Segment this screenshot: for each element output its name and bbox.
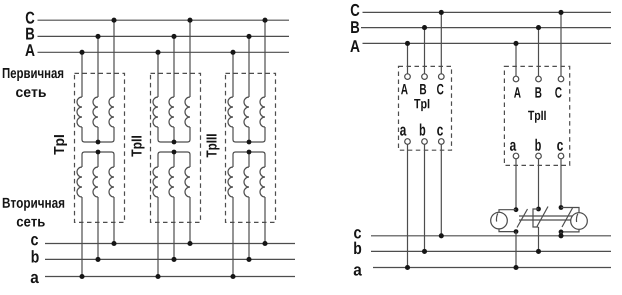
winding: TrIII primary phase C coil	[260, 97, 265, 127]
wire: TrII(box) phase C lead from bus C	[560, 12, 562, 76]
terminal: TrI(box) HV terminal C	[439, 74, 445, 80]
node: TrIII secondary star point	[247, 150, 252, 155]
node: TrII(box) tap on bus C	[558, 10, 563, 15]
wire: secondary bus a (left)	[45, 276, 295, 278]
node: TrII secondary star point	[172, 150, 177, 155]
node: TrI(box) tap on bus a	[405, 265, 410, 270]
node: switch pole c lower contact	[559, 230, 564, 235]
terminal: TrI(box) HV terminal A	[405, 74, 411, 80]
wire: primary bus C (right)	[363, 11, 612, 13]
label: TrII(box) terminal A	[514, 87, 521, 97]
node: TrI tap on bus A	[79, 50, 84, 55]
node: TrI(box) tap on bus b	[422, 249, 427, 254]
node: switch pole c upper contact	[559, 205, 564, 210]
voltmeter PV2 needle	[576, 214, 577, 222]
node: TrII tap on bus a	[155, 274, 160, 279]
node: TrI(box) tap on bus c	[439, 233, 444, 238]
wire: TrII phase B lead from bus B	[173, 36, 175, 97]
label: TrI(box) terminal c	[437, 127, 443, 136]
wire: TrII phase a lead to bus a	[157, 197, 159, 277]
wire: TrIII phase b lead to bus b	[248, 197, 250, 259]
wire: switch pole a to bus a	[515, 232, 517, 268]
terminal: TrII(box) LV terminal c	[558, 153, 564, 159]
terminal: TrII(box) HV terminal B	[536, 76, 542, 82]
wire: TrI phase B lead from bus B	[97, 36, 99, 97]
terminal: TrII(box) HV terminal C	[558, 76, 564, 82]
transformer TrIII dashed enclosure	[226, 73, 276, 222]
label: bus c (right)	[354, 229, 361, 238]
voltmeter PV1 bottom lead	[499, 229, 516, 232]
wire: TrII phase C lead from bus C	[189, 20, 191, 97]
wire: TrI primary star middle lead	[97, 127, 99, 142]
wire: TrI phase c lead to bus c	[113, 197, 115, 244]
label: TrI (rotated)	[54, 135, 67, 154]
wire: TrI(box) phase C lead from bus C	[440, 12, 442, 73]
node: TrIII tap on bus c	[262, 241, 267, 246]
wire: TrII secondary star middle lead	[173, 152, 175, 167]
node: TrI primary star point	[96, 140, 101, 145]
winding: TrIII primary phase B coil	[244, 97, 249, 127]
voltmeter PV1 (lamp) body	[491, 212, 508, 229]
label: bus B (left)	[26, 28, 34, 40]
wire: TrII(box) phase B lead from bus B	[538, 28, 540, 77]
terminal: TrII(box) LV terminal b	[536, 153, 542, 159]
node: TrI secondary star point	[96, 150, 101, 155]
transformer TrI dashed enclosure	[75, 73, 125, 222]
wire: TrI(box) phase A lead from bus A	[407, 43, 409, 73]
wire: TrIII primary star middle lead	[248, 127, 250, 142]
wire: TrII primary star middle lead	[173, 127, 175, 142]
wire: TrI secondary star middle lead	[97, 152, 99, 167]
label: TrI(box) terminal B	[420, 84, 426, 94]
wire: TrI(box) phase B lead from bus B	[424, 28, 426, 74]
node: pole a junction on bus a	[513, 265, 518, 270]
node: TrII primary star point	[172, 140, 177, 145]
voltmeter PV2 (lamp) body	[571, 213, 588, 230]
wire: TrIII phase C lead from bus C	[264, 20, 266, 97]
wire: TrII phase b lead to switch	[538, 159, 540, 209]
winding: TrII primary phase C coil	[185, 97, 190, 127]
wire: primary bus B (left)	[38, 35, 290, 37]
label: TrI(box) terminal C	[437, 84, 444, 95]
wire: TrI primary star rail	[82, 127, 114, 142]
wire: TrIII secondary star rail	[233, 152, 265, 167]
switch blade pole b	[537, 207, 548, 227]
wire: TrI(box) phase a lead to bus a	[407, 144, 409, 267]
wire: TrIII primary star rail	[233, 127, 265, 142]
label: Vtorichnaya network line 2	[17, 219, 45, 227]
label: TrII(box) terminal c	[557, 142, 563, 151]
voltmeter PV1 needle	[496, 213, 497, 221]
node: TrI tap on bus a	[79, 274, 84, 279]
wire: secondary bus c (right)	[371, 235, 611, 237]
label: bus a (right)	[354, 266, 362, 275]
node: TrII tap on bus c	[187, 241, 192, 246]
node: TrII tap on bus A	[155, 50, 160, 55]
label: Pervichnaya (primary) network line 1	[3, 68, 63, 81]
node: TrIII tap on bus A	[230, 50, 235, 55]
node: TrI tap on bus b	[95, 257, 100, 262]
node: TrI tap on bus C	[111, 18, 116, 23]
voltmeter PV2 bottom lead	[561, 229, 579, 232]
wire: secondary bus a (right)	[373, 267, 611, 269]
wire: TrIII phase c lead to bus c	[264, 197, 266, 244]
node: switch pole b upper contact	[536, 207, 541, 212]
label: TrII (rotated)	[132, 136, 145, 157]
wire: TrI(box) phase b lead to bus b	[424, 144, 426, 251]
winding: TrI primary phase C coil	[109, 97, 114, 127]
node: TrII tap on bus C	[187, 18, 192, 23]
switch blade pole a	[517, 209, 528, 228]
wire: secondary bus b (left)	[45, 258, 295, 260]
label: bus a (left)	[31, 274, 39, 283]
wire: TrII phase c lead to switch	[560, 159, 562, 208]
wire: TrI phase C lead from bus C	[113, 20, 115, 97]
wire: TrIII secondary star middle lead	[248, 152, 250, 167]
label: TrII (box)	[528, 111, 546, 123]
wire: TrII phase a lead to switch	[515, 159, 517, 210]
wire: TrIII phase A lead from bus A	[232, 52, 234, 97]
wire: TrI(box) phase c lead to bus c	[440, 144, 442, 236]
switch pole b closed jumper	[533, 209, 539, 227]
wire: TrI secondary star rail	[82, 152, 114, 167]
voltmeter PV2 top lead	[561, 208, 579, 213]
label: TrII(box) terminal a	[510, 142, 516, 151]
terminal: TrI(box) LV terminal b	[422, 139, 428, 145]
terminal: TrII(box) LV terminal a	[513, 153, 519, 159]
label: bus C (left)	[26, 12, 35, 24]
wire: TrI phase a lead to bus a	[81, 197, 83, 277]
node: TrI(box) tap on bus B	[422, 25, 427, 30]
label: TrI (box)	[414, 99, 429, 111]
winding: TrI secondary phase b coil	[93, 167, 98, 197]
terminal: TrI(box) HV terminal B	[422, 74, 428, 80]
wire: TrI phase b lead to bus b	[97, 197, 99, 259]
label: TrI(box) terminal b	[420, 124, 425, 136]
winding: TrII primary phase B coil	[169, 97, 174, 127]
label: TrII(box) terminal C	[555, 87, 562, 98]
terminal: TrI(box) LV terminal c	[439, 139, 445, 145]
node: switch pole a upper contact	[514, 207, 519, 212]
label: Pervichnaya network line 2	[16, 89, 46, 97]
label: TrII(box) terminal b	[535, 139, 540, 151]
node: TrIII tap on bus a	[230, 274, 235, 279]
wire: switch pole b to bus b	[538, 227, 540, 251]
label: bus b (left)	[32, 250, 39, 262]
voltmeter PV1 top lead	[499, 210, 516, 213]
wire: TrIII phase a lead to bus a	[232, 197, 234, 277]
label: TrI(box) terminal a	[400, 127, 406, 136]
wire: primary bus A (left)	[38, 51, 290, 53]
winding: TrIII secondary phase a coil	[228, 167, 233, 197]
wire: TrII primary star rail	[158, 127, 190, 142]
transformer TrII dashed enclosure	[151, 73, 201, 222]
winding: TrIII secondary phase b coil	[244, 167, 249, 197]
winding: TrI primary phase A coil	[77, 97, 82, 127]
wire: secondary bus b (right)	[371, 250, 611, 252]
wire: primary bus A (right)	[363, 42, 612, 44]
transformer TrII (box form) dashed enclosure	[504, 66, 569, 165]
winding: TrI primary phase B coil	[93, 97, 98, 127]
switch linkage bar upper edge	[519, 215, 576, 217]
winding: TrII secondary phase a coil	[153, 167, 158, 197]
wire: TrII phase c lead to bus c	[189, 197, 191, 244]
node: TrII(box) tap on bus B	[536, 25, 541, 30]
node: TrI(box) tap on bus A	[405, 41, 410, 46]
winding: TrI secondary phase c coil	[109, 167, 114, 197]
node: TrIII tap on bus B	[246, 34, 251, 39]
node: TrIII tap on bus b	[246, 257, 251, 262]
winding: TrII secondary phase c coil	[185, 167, 190, 197]
label: bus B (right)	[351, 21, 359, 33]
label: Vtorichnaya (secondary) network line 1	[3, 198, 64, 211]
node: TrII tap on bus b	[171, 257, 176, 262]
node: TrI tap on bus c	[111, 241, 116, 246]
label: bus C (right)	[351, 4, 360, 16]
wire: TrII secondary star rail	[158, 152, 190, 167]
node: pole b junction on bus b	[536, 249, 541, 254]
wire: primary bus C (left)	[38, 19, 290, 21]
wire: primary bus B (right)	[361, 27, 611, 29]
node: TrIII tap on bus C	[262, 18, 267, 23]
node: TrI tap on bus B	[95, 34, 100, 39]
winding: TrIII primary phase A coil	[228, 97, 233, 127]
label: bus b (right)	[354, 242, 361, 254]
winding: TrII primary phase A coil	[153, 97, 158, 127]
wire: TrIII phase B lead from bus B	[248, 36, 250, 97]
label: bus c (left)	[31, 236, 38, 245]
label: bus A (left)	[25, 44, 34, 56]
node: TrII tap on bus B	[171, 34, 176, 39]
wire: TrI phase A lead from bus A	[81, 52, 83, 97]
label: TrIII (rotated)	[207, 134, 220, 157]
node: TrIII primary star point	[247, 140, 252, 145]
switch linkage bar lower edge	[519, 219, 576, 221]
label: TrII(box) terminal B	[535, 87, 541, 97]
node: TrI(box) tap on bus C	[439, 10, 444, 15]
terminal: TrI(box) LV terminal a	[405, 139, 411, 145]
winding: TrIII secondary phase c coil	[260, 167, 265, 197]
label: bus A (right)	[350, 40, 359, 52]
node: TrII(box) tap on bus A	[513, 41, 518, 46]
winding: TrI secondary phase a coil	[77, 167, 82, 197]
wire: TrII phase b lead to bus b	[173, 197, 175, 259]
wire: switch pole c to bus c	[560, 232, 562, 236]
node: pole c junction on bus c	[558, 233, 563, 238]
node: switch pole a lower contact	[514, 229, 519, 234]
wire: secondary bus c (left)	[45, 243, 295, 245]
wire: TrII phase A lead from bus A	[157, 52, 159, 97]
switch blade pole c	[562, 208, 573, 227]
winding: TrII secondary phase b coil	[169, 167, 174, 197]
wire: TrII(box) phase A lead from bus A	[515, 43, 517, 76]
transformer TrI (box form) dashed enclosure	[399, 66, 452, 150]
label: TrI(box) terminal A	[401, 84, 408, 94]
terminal: TrII(box) HV terminal A	[513, 76, 519, 82]
